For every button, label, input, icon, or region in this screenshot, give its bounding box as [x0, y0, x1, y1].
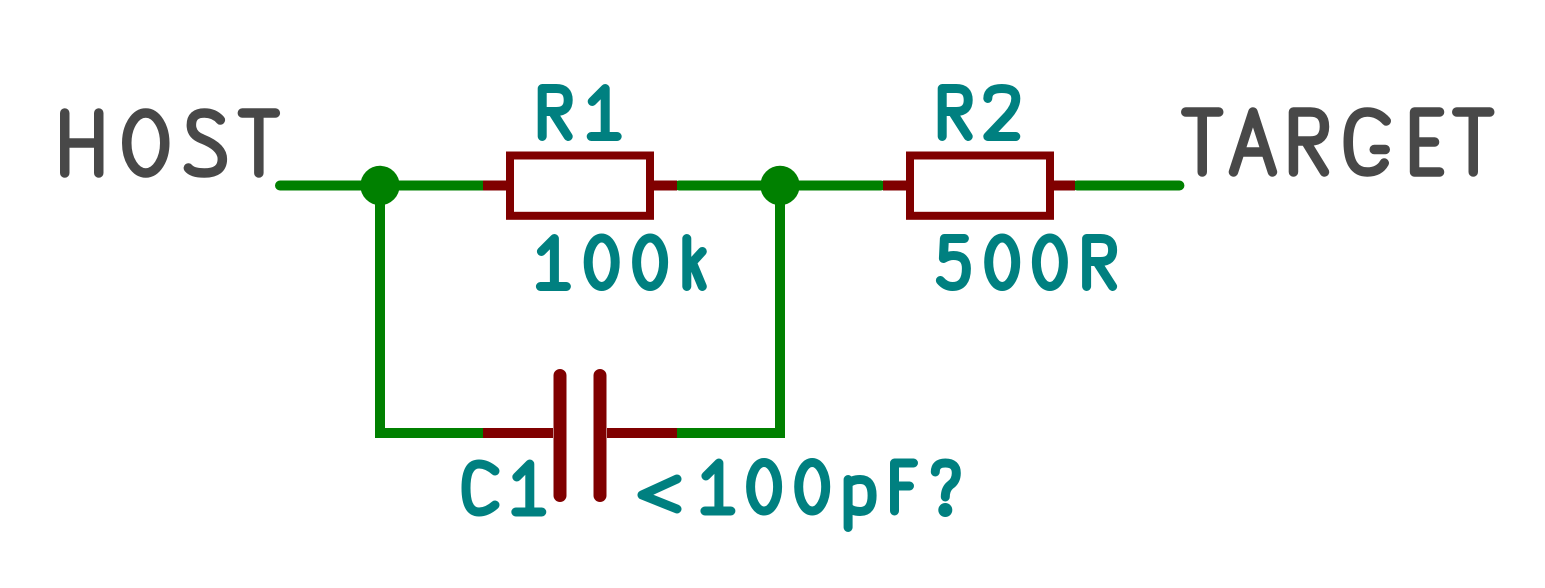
wire node A down to C1 [380, 186, 484, 434]
resistor R1 [483, 156, 677, 216]
capacitor C1 [483, 376, 677, 496]
wire R2 to TARGET [1077, 181, 1179, 191]
wire HOST to node A [280, 181, 490, 191]
junction node B [760, 166, 799, 205]
value <100pF? [642, 463, 956, 528]
junction node A [360, 166, 399, 205]
value 500R [940, 238, 1112, 287]
net label TARGET [1186, 112, 1490, 172]
wire R1 to node B [679, 181, 881, 191]
label C1 [466, 464, 542, 512]
net label HOST [65, 113, 276, 173]
label R1 [542, 89, 617, 137]
label R2 [942, 89, 1016, 137]
resistor R2 [883, 156, 1075, 216]
value 100k [540, 238, 702, 287]
wire node B down to C1 [676, 186, 780, 434]
